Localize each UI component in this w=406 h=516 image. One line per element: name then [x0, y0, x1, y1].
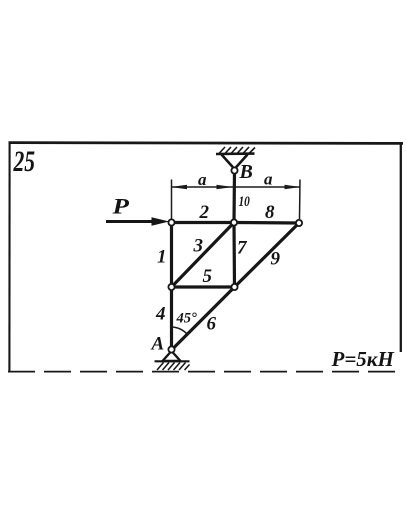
svg-text:3: 3	[193, 236, 204, 257]
svg-text:7: 7	[237, 238, 248, 259]
svg-text:5: 5	[203, 266, 213, 287]
svg-text:P: P	[111, 195, 130, 219]
svg-text:8: 8	[265, 202, 275, 223]
support A ground line	[155, 360, 190, 362]
member 3	[172, 223, 235, 288]
svg-text:10: 10	[239, 193, 251, 210]
svg-text:a: a	[198, 170, 207, 189]
member 8	[234, 221, 299, 225]
dimension extension line left	[171, 180, 173, 220]
svg-text:1: 1	[157, 247, 167, 268]
frame left border	[8, 142, 10, 372]
force P arrow	[106, 220, 155, 223]
svg-text:4: 4	[155, 304, 166, 325]
member 4	[170, 287, 173, 350]
svg-text:25: 25	[13, 145, 35, 178]
svg-text:В: В	[239, 161, 253, 183]
dimension extension line right	[299, 180, 302, 220]
dimension arrow right	[285, 185, 301, 189]
member 10	[232, 171, 236, 223]
svg-text:2: 2	[199, 202, 210, 223]
dimension arrow middle	[217, 185, 233, 189]
svg-text:a: a	[264, 170, 273, 189]
svg-text:9: 9	[271, 249, 281, 270]
node mid-left	[168, 284, 174, 290]
member 2	[172, 221, 235, 224]
node top-middle	[231, 219, 237, 225]
support B triangle	[222, 155, 248, 170]
svg-text:Р=5кН: Р=5кН	[331, 347, 395, 371]
support A triangle	[163, 351, 181, 361]
node A pin circle	[168, 346, 174, 352]
frame top border	[9, 141, 404, 145]
dimension arrow left	[171, 185, 187, 189]
member 1	[170, 223, 173, 288]
support B hatching line	[216, 152, 255, 155]
frame right border	[400, 142, 402, 352]
svg-text:6: 6	[207, 314, 217, 335]
member 9	[235, 223, 300, 287]
member 6	[172, 287, 235, 350]
node top-right	[296, 220, 302, 226]
support A hatch marks	[157, 363, 190, 371]
pin node B	[231, 167, 237, 173]
member 7	[232, 223, 236, 288]
45 degree arc	[172, 327, 188, 335]
svg-text:A: A	[151, 334, 165, 355]
svg-text:45°: 45°	[176, 311, 198, 327]
support B hatch marks	[219, 147, 255, 154]
node top-left	[168, 219, 174, 225]
member 5	[172, 285, 235, 288]
node mid-bottom	[231, 284, 237, 290]
frame bottom dashed border	[8, 371, 396, 373]
dimension line	[172, 186, 300, 188]
